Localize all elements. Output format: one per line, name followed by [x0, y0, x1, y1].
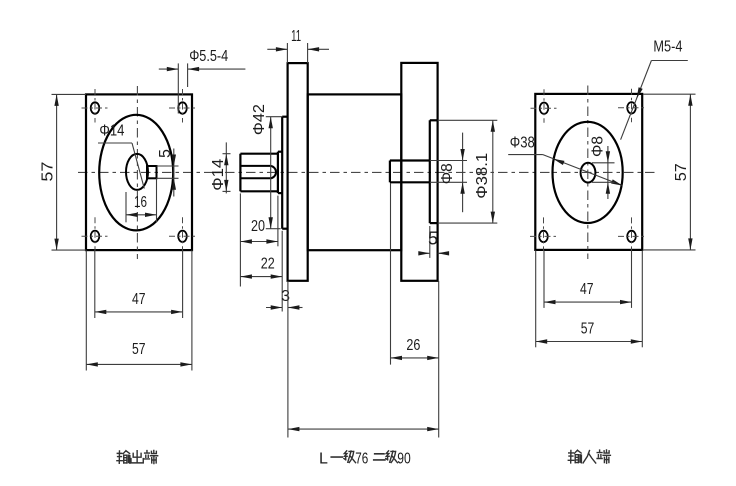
- svg-text:5: 5: [428, 229, 438, 249]
- phi42 pilot boss (side view): [281, 117, 283, 229]
- svg-text:5: 5: [157, 149, 174, 158]
- right view corner hole top-right: [627, 102, 636, 113]
- left view: output flange plate 57x57: [86, 94, 192, 250]
- svg-text:26: 26: [406, 337, 420, 354]
- thread callout M5-4 leader: [651, 60, 687, 62]
- dim 11 front plate thickness: [286, 43, 288, 63]
- output shaft phi14 (side view): [239, 154, 241, 192]
- svg-text:16: 16: [134, 194, 147, 211]
- svg-text:90: 90: [397, 451, 411, 468]
- shaft collar step: [277, 152, 279, 193]
- right view corner hole bottom-left: [539, 231, 548, 242]
- dim 5 keyway width (left view): [157, 165, 179, 167]
- svg-text:76: 76: [355, 451, 368, 468]
- phi8 input coupling bore: [389, 161, 391, 183]
- left view corner hole top-right: [178, 102, 187, 113]
- left view shaft bore circle (phi14): [126, 154, 148, 190]
- left view corner hole bottom-left: [91, 231, 100, 242]
- dim 26 rear section length: [390, 183, 392, 364]
- svg-text:47: 47: [132, 291, 146, 308]
- front flange plate (11 thick): [288, 63, 308, 281]
- dim 20 shaft length: [239, 193, 241, 286]
- svg-text:M5-4: M5-4: [653, 39, 682, 56]
- dim 3 boss thickness: [266, 307, 282, 309]
- dim phi14 shaft (side view): [223, 153, 231, 155]
- svg-text:47: 47: [580, 281, 594, 298]
- gearbox body: [308, 94, 402, 250]
- right view pilot circle phi38: [553, 122, 623, 223]
- right view vertical centerline: [587, 86, 589, 260]
- right view: input flange plate 57x57: [535, 94, 642, 250]
- dim phi8 input hole (right view): [592, 162, 615, 164]
- svg-text:Φ8: Φ8: [439, 163, 456, 184]
- right view corner hole top-left: [540, 103, 549, 114]
- dim 47 bolt spacing (left view bottom): [94, 250, 96, 318]
- phi38.1 input recess line: [429, 120, 431, 223]
- dim 57 width (right view bottom): [535, 250, 537, 347]
- dim L overall length: [287, 281, 289, 438]
- horizontal centerline (global axis): [78, 171, 655, 173]
- rear flange plate: [401, 63, 437, 281]
- dim phi38 leader with diameter arrows: [508, 154, 543, 156]
- dim 57 height (left view left side): [52, 93, 87, 95]
- svg-text:3: 3: [281, 288, 290, 305]
- svg-text:Φ14: Φ14: [99, 122, 124, 139]
- dim phi5.5-4 mounting holes (left view): [177, 63, 179, 113]
- svg-text:Φ42: Φ42: [251, 104, 268, 135]
- dim 16 keyway depth (left view): [125, 192, 127, 222]
- svg-text:11: 11: [291, 28, 301, 45]
- left view corner hole bottom-right: [178, 231, 187, 242]
- left view keyway cross-section rect: [147, 166, 157, 178]
- svg-text:20: 20: [251, 218, 265, 235]
- dim 47 bolt spacing (right view bottom): [543, 250, 545, 308]
- dim phi14 leader (left view): [98, 142, 132, 144]
- left view pilot boss circle (phi42): [99, 115, 173, 231]
- svg-text:22: 22: [261, 256, 275, 273]
- svg-text:Φ38.1: Φ38.1: [474, 153, 491, 199]
- svg-text:57: 57: [40, 161, 57, 181]
- svg-text:Φ8: Φ8: [589, 136, 606, 157]
- svg-text:Φ14: Φ14: [210, 159, 227, 191]
- left view corner hole top-left: [91, 102, 100, 113]
- keyway slot on shaft (side view): [240, 166, 276, 178]
- svg-text:L: L: [319, 451, 328, 468]
- svg-text:Φ5.5-4: Φ5.5-4: [189, 48, 228, 65]
- svg-text:57: 57: [581, 321, 595, 338]
- svg-text:Φ38: Φ38: [510, 135, 535, 152]
- dim 22 shaft total: [281, 231, 283, 312]
- dim 57 width (left view bottom): [85, 250, 87, 370]
- right view input shaft hole phi8: [581, 163, 596, 183]
- dim phi8 coupling (side view): [430, 160, 467, 162]
- dim 57 height (right view right side): [643, 93, 696, 95]
- label output end (Chinese): [117, 451, 130, 464]
- dim phi42 (side view): [266, 116, 282, 118]
- label input end (Chinese): [568, 450, 581, 463]
- svg-text:57: 57: [132, 341, 146, 358]
- right view corner hole bottom-right: [627, 231, 636, 242]
- dim 5 recess depth: [429, 226, 431, 258]
- dim phi38.1 recess (side view): [438, 119, 498, 121]
- svg-text:57: 57: [673, 163, 690, 181]
- left view vertical centerline: [136, 86, 138, 259]
